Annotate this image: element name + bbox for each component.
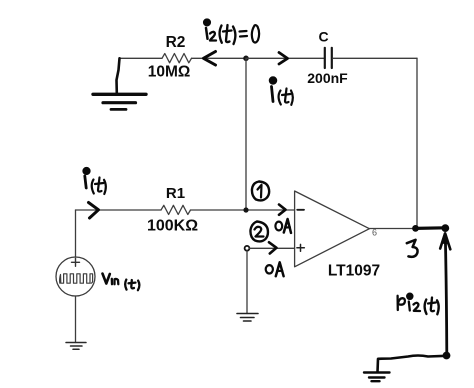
arrow current i (right chevron): [279, 53, 288, 65]
wire node to capacitor: [246, 57, 324, 59]
ground bottom right: [364, 373, 390, 382]
arrow current i input chevron: [89, 203, 99, 219]
probe arrowhead: [440, 233, 450, 249]
wire feedback column: [245, 58, 247, 210]
wire capacitor to right corner: [333, 57, 417, 59]
wire top horizontal left segment: [120, 57, 163, 59]
svg-text:LT1097: LT1097: [328, 262, 380, 279]
wire R1 to op-amp: [191, 209, 295, 211]
probe arrow line (vi2): [445, 235, 447, 353]
label 0A lower: [266, 262, 284, 276]
current label i(t) input side: [84, 168, 106, 194]
svg-text:10MΩ: 10MΩ: [148, 64, 191, 81]
label 0A upper: [275, 219, 291, 233]
arrow current i2 (left chevron): [204, 52, 216, 66]
svg-text:200nF: 200nF: [307, 70, 348, 86]
ground below noninverting: [237, 314, 258, 322]
ground top left (bold): [93, 94, 146, 109]
source plus sign: [72, 258, 80, 266]
svg-text:100KΩ: 100KΩ: [147, 218, 198, 235]
wire right vertical: [416, 58, 418, 228]
node junction top: [243, 56, 249, 62]
arrow on noninverting wire: [269, 242, 277, 253]
label Vin(t) handwritten: [103, 274, 140, 291]
node 1 circled: [252, 182, 269, 201]
wire top-left down (hand thick): [117, 58, 120, 93]
node 3 label: [407, 240, 418, 257]
op-amp plus sign: [297, 244, 304, 251]
wire noninverting to ground: [246, 251, 248, 314]
svg-text:R2: R2: [166, 34, 186, 51]
resistor R2: [162, 54, 192, 63]
capacitor C: [325, 48, 332, 68]
wire R2 to node: [192, 57, 247, 59]
label vi2(t): [398, 294, 439, 315]
op-amp minus sign: [297, 209, 304, 211]
wire output: [370, 228, 418, 230]
node junction inverting: [243, 207, 248, 212]
wire noninverting input: [250, 247, 295, 249]
op-amp U1 LT1097: [295, 191, 370, 267]
wire handdrawn to ground right: [378, 356, 447, 373]
resistor R1: [161, 205, 191, 214]
arrow into inverting input: [279, 205, 286, 215]
current label i2(t)=0: [204, 20, 259, 44]
node open dot noninverting: [245, 246, 250, 251]
wire handdrawn output extension: [416, 226, 446, 230]
svg-text:R1: R1: [166, 185, 185, 202]
source Vin circle: [56, 257, 95, 296]
svg-text:C: C: [318, 29, 328, 45]
node 2 circled: [250, 222, 267, 242]
current label i(t) near capacitor: [270, 78, 293, 105]
wire input horizontal: [76, 209, 162, 211]
node dot probe top: [441, 224, 449, 232]
node junction output (thick): [412, 225, 419, 232]
ground bottom left: [66, 343, 86, 350]
wire source top lead: [75, 210, 77, 257]
node dot probe bottom: [443, 352, 451, 360]
source square wave glyph: [60, 274, 93, 283]
wire source bottom lead: [75, 296, 77, 343]
